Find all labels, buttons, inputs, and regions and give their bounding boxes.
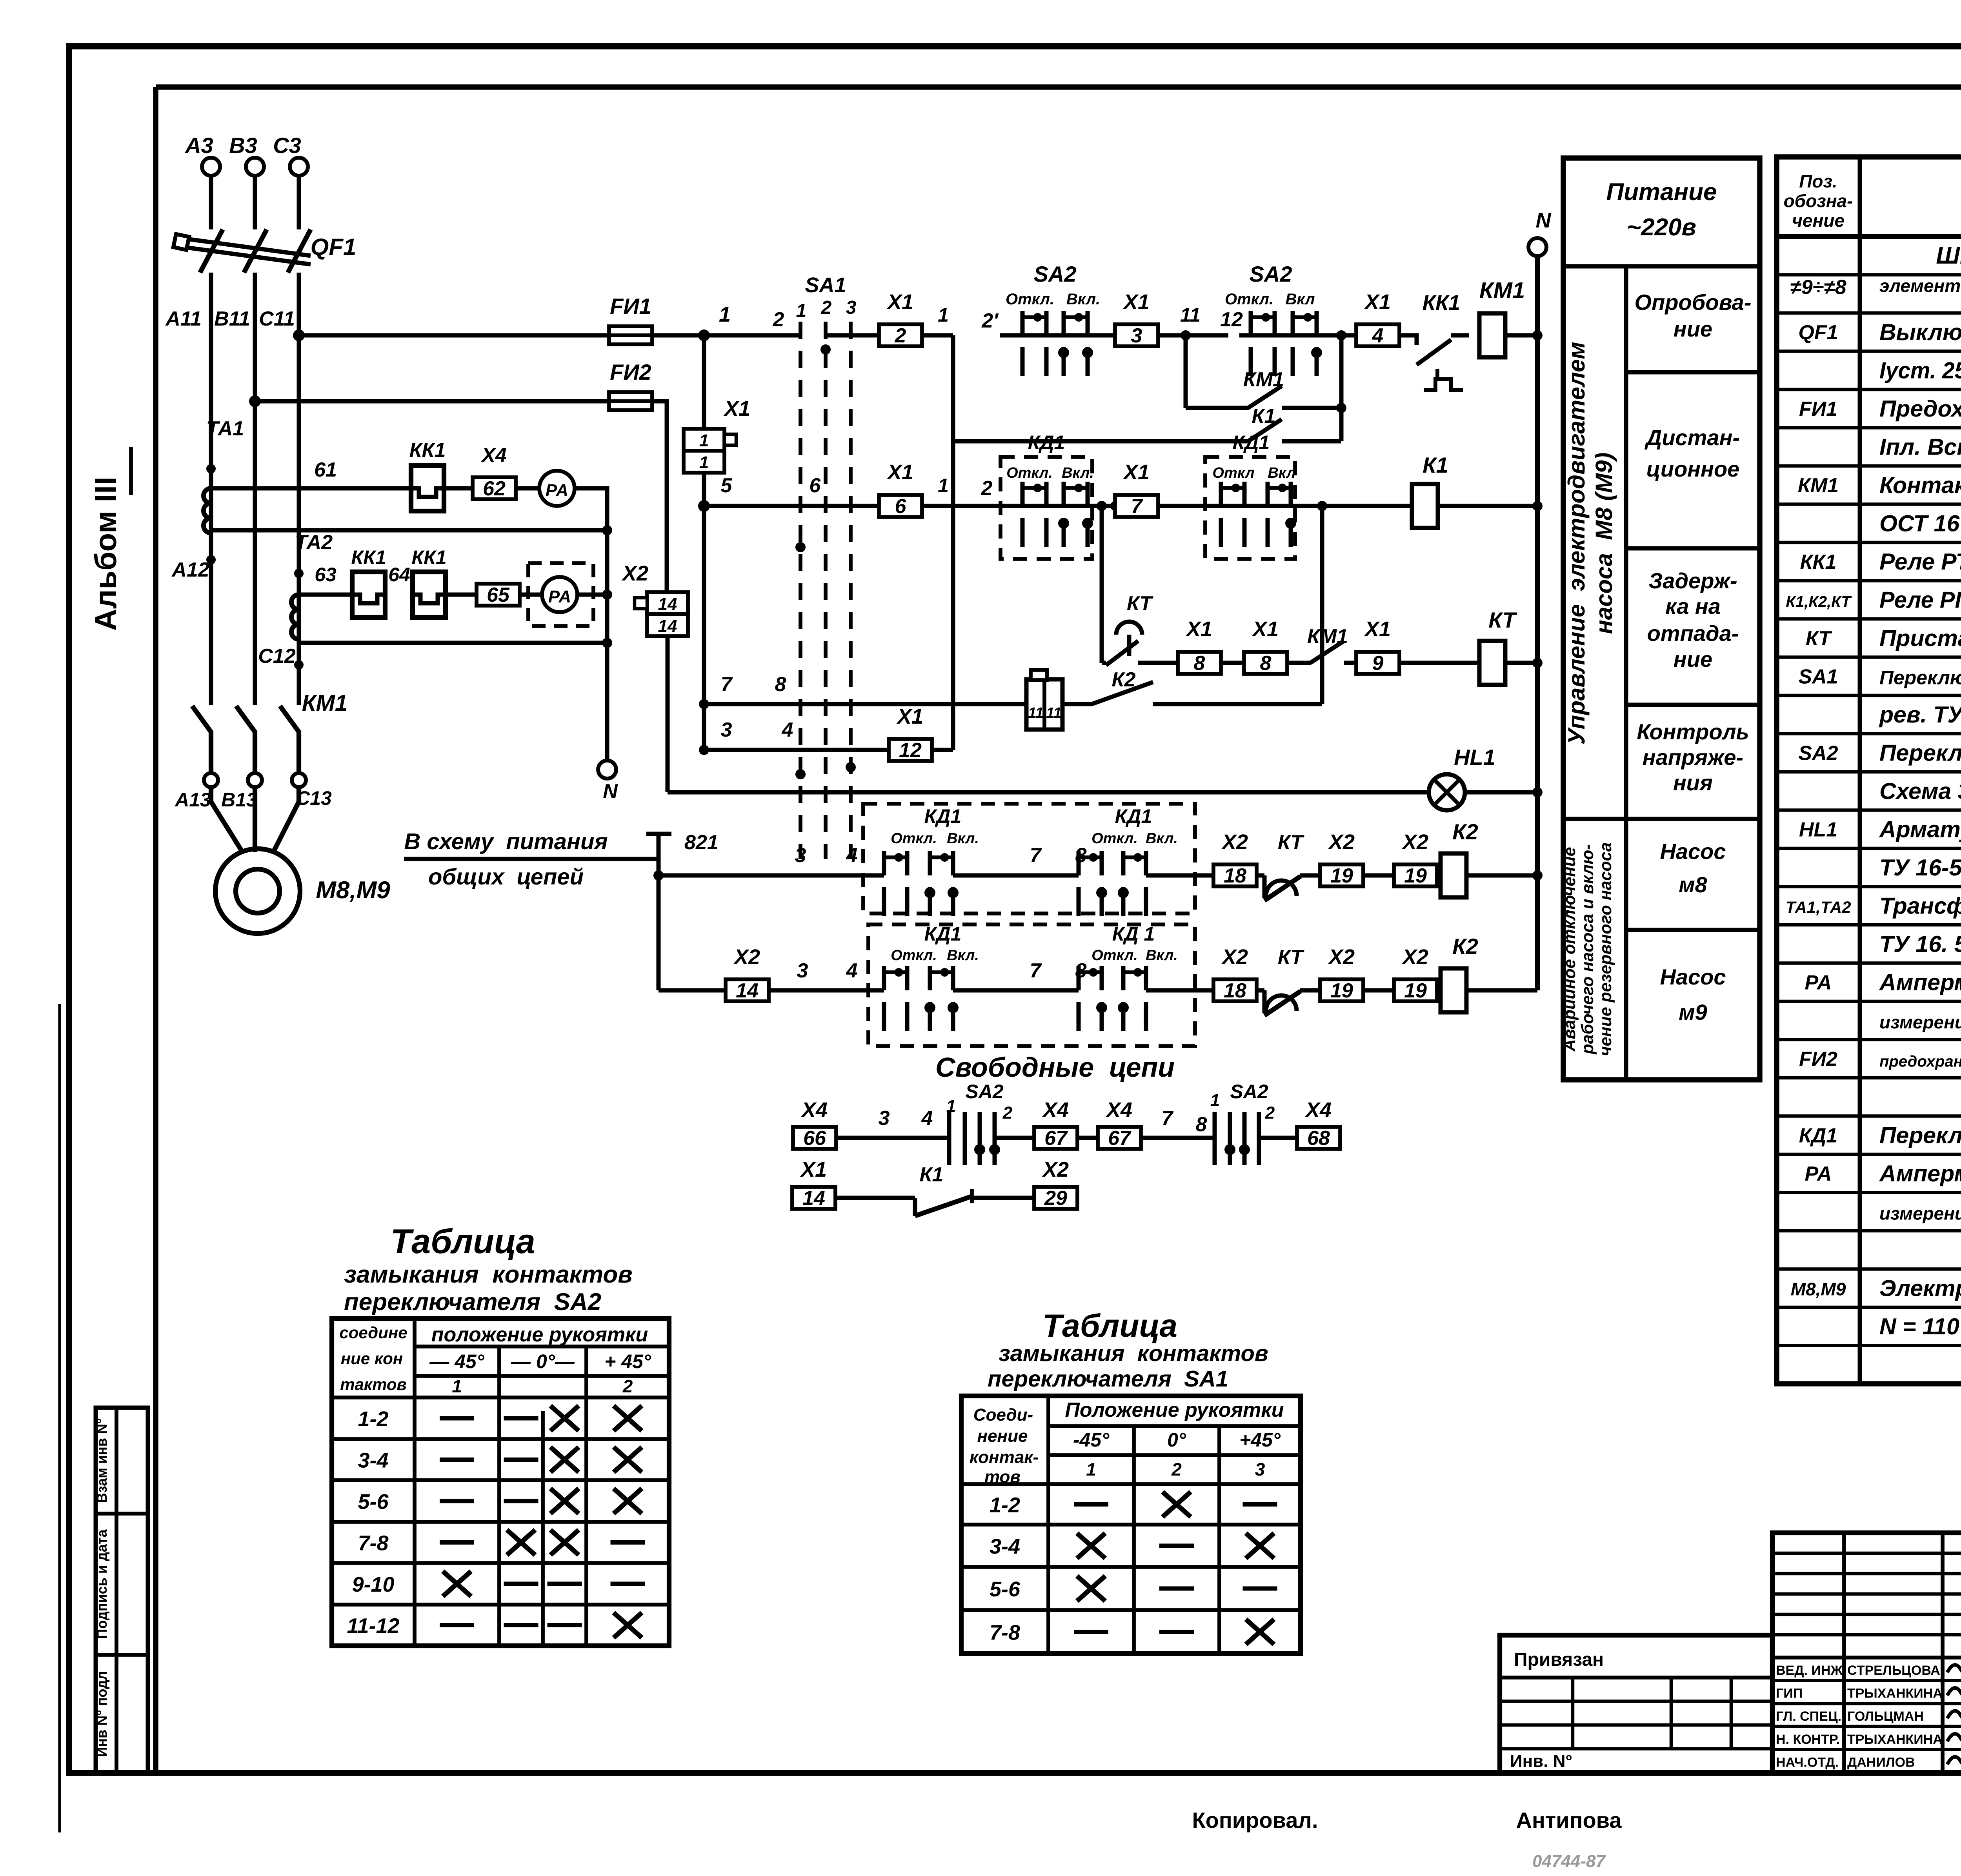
terminal N (meters) (598, 761, 616, 779)
parts row 5: Предохранитель ПРС-25У3-П (1799, 396, 1961, 422)
table SA1 row 3-4 (990, 1533, 1274, 1558)
terminal X4 67b (1098, 1127, 1141, 1149)
parts row 21: измерений 0-300А ТТ300/5А ТУ25.04-1308-76 (1879, 1008, 1961, 1033)
svg-text:18: 18 (1224, 864, 1246, 887)
wire K2 to N (M8) (1466, 873, 1537, 878)
wire KM1 to N (1505, 333, 1537, 338)
parts row 20: Амперметр Э377 кл. 1.0 предел (1805, 969, 1961, 995)
parts row 19: ТУ 16. 517. 442-80 (1879, 931, 1961, 957)
wire C phase down (297, 273, 301, 705)
wire row2 d (1322, 504, 1412, 508)
wire riser to row1 (1339, 335, 1344, 441)
svg-text:68: 68 (1307, 1127, 1330, 1150)
thermal contact KK1 (1399, 291, 1469, 390)
svg-text:4: 4 (846, 844, 858, 867)
table SA1 grid (961, 1396, 1301, 1654)
table SA2 row 11-12 (347, 1613, 642, 1638)
svg-text:-45°: -45° (1073, 1429, 1110, 1451)
lamp HL1 (1429, 745, 1495, 810)
parts row 13: рев. ТУ16-526.047-74. (1879, 702, 1961, 728)
svg-text:Х1: Х1 (1122, 460, 1150, 484)
wire node7 row8 (704, 702, 1028, 706)
svg-text:14: 14 (658, 617, 677, 636)
svg-text:напряже-: напряже- (1643, 745, 1743, 770)
parts row 15: Схема 3016 рук. рев.ТУ16-526.047-74 (1879, 778, 1961, 804)
terminal X1 2 (879, 324, 922, 346)
wire row2 a (800, 504, 880, 508)
wire meter bus down to N (605, 488, 609, 761)
svg-text:Инв. N°: Инв. N° (1510, 1752, 1572, 1771)
wire fuse to node 1 (651, 333, 704, 338)
svg-text:Х1: Х1 (886, 290, 913, 314)
neutral bus N (1528, 209, 1552, 990)
svg-text:62: 62 (483, 477, 506, 500)
parts row 14: Переключатель ПКУ3-12АУ3 (1798, 740, 1961, 766)
svg-text:обозна-: обозна- (1784, 191, 1853, 211)
relay coil K2 (M9) (1441, 968, 1466, 1012)
svg-text:Х1: Х1 (886, 460, 913, 484)
relay coil K1 (1412, 484, 1438, 528)
terminal B3 (246, 158, 264, 176)
svg-text:5-6: 5-6 (990, 1578, 1021, 1601)
relay coil K2 (M8) (1441, 853, 1466, 897)
fuse FИ2 (609, 392, 652, 410)
svg-text:29: 29 (1044, 1187, 1067, 1210)
svg-text:1: 1 (452, 1376, 462, 1396)
svg-text:Поз.: Поз. (1799, 171, 1837, 191)
wire node3 row4 (704, 748, 890, 752)
svg-text:К1: К1 (1423, 453, 1448, 477)
svg-text:В11: В11 (214, 308, 250, 330)
svg-text:Вкл.: Вкл. (1146, 830, 1178, 847)
aux contact KM1 (KT row) (1287, 661, 1310, 665)
svg-text:QF1: QF1 (1798, 321, 1838, 344)
svg-text:Х1: Х1 (1252, 617, 1279, 641)
terminal X2 18 (M9) (1213, 979, 1257, 1001)
motor leads (211, 787, 242, 852)
wire free1 a (836, 1136, 949, 1140)
wire B3 down (253, 176, 257, 229)
svg-text:КК1: КК1 (351, 546, 386, 568)
parts row 29: N = 110 кВт (1879, 1314, 1961, 1339)
table SA2 row 9-10 (352, 1571, 645, 1596)
junction PA2 out (602, 590, 612, 600)
terminal X4 68 (1297, 1127, 1340, 1149)
svg-text:ТА1: ТА1 (206, 417, 244, 440)
wire free1 d (1140, 1136, 1215, 1140)
svg-text:67: 67 (1108, 1127, 1131, 1150)
svg-text:8: 8 (1196, 1113, 1207, 1136)
svg-text:2: 2 (773, 308, 784, 331)
time contact KT (M9) (1256, 988, 1264, 993)
svg-text:Управление электродвигателем: Управление электродвигателем (1563, 342, 1590, 744)
svg-text:Альбом III: Альбом III (88, 477, 123, 631)
terminal B13 (248, 773, 262, 787)
svg-text:1: 1 (938, 475, 949, 497)
parts row 25: Амперметр Э377 кл 1.0 предел (1805, 1161, 1961, 1186)
svg-text:67: 67 (1044, 1127, 1068, 1150)
wire node11 down (1184, 335, 1188, 408)
svg-text:измерений 0-300А ТТ300/5А ТУ25: измерений 0-300А ТТ300/5А ТУ25.04-1308-7… (1879, 1012, 1961, 1032)
table SA1 row 5-6 (990, 1576, 1277, 1601)
svg-text:Iуст. 2500А. Зажимы N2 ТУ16-52: Iуст. 2500А. Зажимы N2 ТУ16-522.028-77 (1879, 357, 1961, 383)
table SA2 row 7-8 (358, 1530, 645, 1555)
parts row 18: Трансформатор Тк-40-1.У3 I 300/5А (1785, 893, 1961, 919)
svg-text:6: 6 (810, 474, 821, 497)
svg-text:4: 4 (921, 1107, 933, 1130)
svg-text:Шкаф управления Ш8(Ш9): Шкаф управления Ш8(Ш9) (1936, 242, 1961, 269)
terminal X2 19b (M9) (1394, 979, 1437, 1001)
wire M9 f (1436, 988, 1441, 993)
svg-text:SА2: SА2 (1230, 1081, 1268, 1103)
wire B to FИ2 (255, 399, 610, 404)
wire row2 b (921, 504, 1001, 508)
svg-text:N: N (603, 780, 618, 803)
svg-text:Х1: Х1 (1122, 290, 1150, 314)
wire M9 d (1300, 988, 1321, 993)
terminal X4 67a (1034, 1127, 1077, 1149)
svg-text:Х4: Х4 (480, 444, 507, 467)
terminal C3 (290, 158, 308, 176)
wire TA2 secondary top (299, 593, 352, 597)
parts row 24: Переключатель ПКУ3-12А-3016 (1799, 1122, 1961, 1148)
svg-text:КД1: КД1 (1115, 805, 1152, 827)
svg-text:КМ1: КМ1 (1479, 278, 1525, 303)
svg-text:SА2: SА2 (1034, 262, 1077, 286)
terminal X1 9 (1356, 652, 1399, 674)
table SA2 row 1-2 (358, 1406, 642, 1431)
svg-text:Вкл.: Вкл. (1062, 465, 1094, 481)
svg-text:FИ2: FИ2 (610, 360, 651, 384)
svg-text:Вкл.: Вкл. (947, 947, 979, 964)
svg-text:КМ1: КМ1 (1307, 625, 1348, 648)
parts row 28: Электродвигатель 4А315S6 У3 (1791, 1275, 1961, 1301)
switch SA2 group2 (row1) (1220, 262, 1341, 376)
svg-text:SА2: SА2 (965, 1081, 1003, 1103)
svg-text:КТ: КТ (1127, 592, 1154, 615)
wire to X1 4 (1341, 333, 1357, 338)
svg-text:0°: 0° (1167, 1429, 1186, 1451)
feeder riser 821 (657, 834, 661, 990)
svg-text:А3: А3 (184, 133, 213, 158)
svg-text:соедине: соедине (339, 1323, 407, 1342)
junction node 1 (698, 329, 710, 341)
fuse FИ1 (609, 326, 652, 344)
svg-text:3-4: 3-4 (990, 1535, 1020, 1558)
terminal A13 (204, 773, 218, 787)
wire PA2 out (577, 593, 607, 597)
svg-text:Задерж-: Задерж- (1648, 568, 1737, 593)
terminal X1 6 (879, 495, 922, 517)
time contact KT (M8) (1256, 873, 1264, 878)
svg-text:2: 2 (895, 324, 906, 347)
wire X1-12 riser (951, 335, 955, 750)
parts row 22: предохранительПРС 6У3-ПIпл.Вст=1А ТУ16.522.112-74 (1799, 1046, 1961, 1071)
wire node1 down (702, 335, 706, 750)
svg-text:РА: РА (1805, 1163, 1832, 1185)
wire X4-62 to PA1 (516, 486, 540, 491)
dashed box PA2 (528, 563, 593, 626)
title block left attach table (1500, 1635, 1772, 1772)
wire A phase down (209, 273, 213, 705)
svg-text:В13: В13 (221, 789, 257, 811)
junction K2riser row2 (1317, 501, 1327, 511)
svg-text:Подпись и дата: Подпись и дата (94, 1529, 110, 1639)
svg-text:Х4: Х4 (1105, 1098, 1132, 1122)
svg-text:65: 65 (487, 584, 510, 606)
parts row 12: ПереключательПКУ3-12СУ3.Схема2024 рук. (1798, 665, 1961, 688)
svg-text:ка на: ка на (1665, 594, 1721, 619)
svg-text:положение рукоятки: положение рукоятки (431, 1323, 648, 1346)
svg-text:предохранительПРС 6У3-ПIпл.Вст: предохранительПРС 6У3-ПIпл.Вст=1А ТУ16.5… (1879, 1053, 1961, 1070)
svg-text:8: 8 (1075, 959, 1087, 982)
parts row 10: Реле РПЛ 1220• 4 ~220В ТУ16-523.554-78 (1786, 587, 1961, 613)
table SA2 row 5-6 (358, 1488, 642, 1514)
table SA1 header (970, 1399, 1284, 1487)
svg-text:+ 45°: + 45° (604, 1350, 651, 1372)
svg-text:ТРЫХАНКИНА: ТРЫХАНКИНА (1847, 1686, 1943, 1701)
svg-text:Свободные цепи: Свободные цепи (935, 1052, 1175, 1083)
svg-text:К1: К1 (1252, 405, 1276, 428)
svg-text:КД 1: КД 1 (1112, 923, 1155, 945)
svg-text:Х1: Х1 (896, 705, 923, 728)
svg-text:SА2: SА2 (1250, 262, 1292, 286)
terminal X1 4 (1356, 324, 1399, 346)
svg-text:Выключатель А3722ФУ3‚ ~380В I: Выключатель А3722ФУ3‚ ~380В I 25А (1879, 319, 1961, 345)
junction B-FИ2 (249, 395, 261, 407)
junction N row2 (1532, 501, 1543, 511)
svg-text:1-2: 1-2 (990, 1494, 1020, 1517)
terminal X1 8b (1244, 652, 1287, 674)
wire K1 to N (1438, 504, 1537, 508)
svg-text:Вкл: Вкл (1268, 465, 1295, 481)
svg-text:РА: РА (548, 587, 571, 606)
parts row 11: Приставка ПВЛ 2204 ТУ16-523.554-78 (1806, 625, 1961, 651)
junction KM1aux (1336, 403, 1346, 413)
thermal element KK1b (TA2) (413, 572, 446, 617)
svg-text:+45°: +45° (1239, 1429, 1281, 1451)
svg-text:12: 12 (1220, 308, 1243, 331)
title block signature table (1772, 1533, 1961, 1772)
svg-text:3-4: 3-4 (358, 1449, 388, 1472)
wire free2 a (836, 1196, 915, 1200)
svg-text:N: N (1536, 209, 1552, 232)
wire KT to X1-8 (1138, 661, 1178, 665)
svg-text:КД1: КД1 (1028, 431, 1065, 453)
ammeter PA2 (542, 577, 577, 612)
svg-text:1: 1 (699, 431, 709, 450)
svg-text:Х2: Х2 (1221, 830, 1248, 854)
svg-text:Предохранитель ПРС-25У3-П: Предохранитель ПРС-25У3-П (1879, 396, 1961, 422)
svg-text:Вкл: Вкл (1285, 291, 1315, 308)
svg-text:Откл: Откл (1212, 465, 1254, 481)
wire lamp to N (1465, 790, 1537, 795)
motor M8 M9 (215, 849, 300, 933)
SA1 dots row4 (795, 769, 806, 779)
wire row1 to fuse (299, 333, 610, 338)
terminal X2 14/14 (621, 562, 688, 636)
svg-text:7: 7 (1131, 495, 1143, 518)
wire row2 branch down (1100, 506, 1104, 663)
svg-text:КТ: КТ (1278, 831, 1305, 854)
svg-text:1: 1 (796, 300, 807, 321)
wire node5 row (704, 504, 800, 508)
svg-text:1: 1 (1086, 1459, 1096, 1479)
junction N row1 (1532, 330, 1543, 340)
svg-text:Инв N° подл: Инв N° подл (94, 1671, 110, 1757)
junction row2 mid (1110, 501, 1121, 511)
relay coil KT (1479, 641, 1505, 685)
terminal X1 8a (1178, 652, 1221, 674)
svg-text:SА1: SА1 (805, 273, 846, 297)
wire feeder underline (404, 857, 659, 861)
svg-text:КТ: КТ (1806, 627, 1833, 650)
svg-text:А13: А13 (174, 789, 211, 811)
svg-text:3: 3 (721, 719, 732, 741)
wire B phase down (253, 273, 257, 705)
svg-text:Х1: Х1 (1185, 617, 1212, 641)
svg-text:3: 3 (1255, 1459, 1265, 1479)
svg-text:Откл.: Откл. (1225, 291, 1273, 308)
svg-text:11: 11 (1046, 705, 1061, 721)
svg-text:Х2: Х2 (733, 945, 760, 969)
terminal block 11|11 (1026, 670, 1062, 730)
table SA1 row 7-8 (990, 1619, 1274, 1645)
svg-text:Вкл.: Вкл. (1146, 947, 1178, 964)
svg-text:ГЛ. СПЕЦ.: ГЛ. СПЕЦ. (1776, 1709, 1841, 1724)
parts table header (1784, 171, 1961, 231)
svg-text:18: 18 (1224, 979, 1246, 1002)
svg-text:элементы управления электродви: элементы управления электродвигателя- (1879, 276, 1961, 296)
svg-text:Контактор КТ6033У3 ~220В Б/к: Контактор КТ6033У3 ~220В Б/к 23‚2р (1879, 472, 1961, 498)
terminal X1 1/1 (684, 397, 750, 473)
svg-text:Х1: Х1 (800, 1158, 827, 1181)
svg-text:ТРЫХАНКИНА: ТРЫХАНКИНА (1847, 1732, 1943, 1747)
svg-text:Реле РПЛ 1220• 4 ~220В ТУ16-52: Реле РПЛ 1220• 4 ~220В ТУ16-523.554-78 (1879, 587, 1961, 613)
table SA2 header (339, 1323, 651, 1396)
wire row M9 b (953, 988, 1079, 993)
remote switch КД1 box1 (row2) (1001, 431, 1115, 559)
remote switch КД1 box (M9) (868, 923, 1195, 1046)
svg-text:Переключатель ПКУ3-12АУ3: Переключатель ПКУ3-12АУ3 (1879, 740, 1961, 766)
svg-text:3: 3 (1131, 324, 1142, 347)
wire 8a-8b (1221, 661, 1244, 665)
table SA2 grid (332, 1319, 669, 1646)
svg-text:Вкл.: Вкл. (947, 830, 979, 847)
svg-text:Откл.: Откл. (1006, 465, 1053, 481)
svg-text:замыкания контактов: замыкания контактов (999, 1341, 1268, 1366)
svg-text:3: 3 (795, 844, 806, 867)
wire A3 down (209, 176, 213, 229)
wire TA2 return (299, 641, 607, 645)
svg-text:7: 7 (721, 673, 733, 696)
svg-text:К2: К2 (1452, 934, 1478, 959)
svg-text:63: 63 (315, 564, 337, 586)
aux contact K1 (953, 439, 1248, 444)
svg-text:ционное: ционное (1646, 457, 1740, 481)
svg-text:НАЧ.ОТД.: НАЧ.ОТД. (1776, 1755, 1839, 1770)
switch SA2 (free1 right) (1210, 1081, 1275, 1165)
wire feeder M9 (659, 988, 726, 993)
svg-text:2′: 2′ (981, 309, 999, 332)
wire M8 e (1363, 873, 1395, 878)
parts row 7: Контактор КТ6033У3 ~220В Б/к 23‚2р (1798, 472, 1961, 498)
switch SA2 (free1 left) (946, 1081, 1013, 1165)
wire free1 b (995, 1136, 1035, 1140)
svg-text:8: 8 (775, 673, 786, 696)
svg-text:4: 4 (782, 719, 793, 741)
terminal X2 29 (1034, 1187, 1077, 1209)
svg-text:Аварийное отключение: Аварийное отключение (1560, 847, 1579, 1052)
svg-text:Вкл.: Вкл. (1066, 291, 1100, 308)
svg-text:КК1: КК1 (1423, 291, 1460, 315)
svg-text:FИ1: FИ1 (610, 294, 651, 318)
svg-text:КМ1: КМ1 (302, 690, 347, 716)
aux contact K2 (row8) (1062, 702, 1092, 706)
svg-text:М8,М9: М8,М9 (1791, 1279, 1846, 1299)
svg-text:19: 19 (1404, 979, 1427, 1002)
svg-text:Привязан: Привязан (1514, 1649, 1604, 1670)
svg-text:Откл.: Откл. (891, 947, 937, 964)
svg-text:Х2: Х2 (1328, 830, 1355, 854)
remote switch КД1 box (M8) (863, 804, 1195, 916)
table SA1 row 1-2 (990, 1492, 1277, 1517)
svg-text:3: 3 (879, 1107, 890, 1130)
svg-text:~220в: ~220в (1627, 214, 1696, 241)
svg-text:14: 14 (802, 1187, 825, 1210)
svg-text:ТА2: ТА2 (295, 531, 333, 554)
svg-text:С3: С3 (273, 133, 301, 158)
junction feeder M8 (653, 870, 664, 881)
svg-text:4: 4 (846, 959, 858, 982)
thermal element KK1 (TA1) (411, 466, 444, 511)
junction return (602, 525, 612, 535)
function table frame (1563, 158, 1760, 1080)
svg-text:Х1: Х1 (1364, 290, 1391, 314)
svg-text:8: 8 (1260, 652, 1272, 675)
svg-text:Переключатель ПКУ3-12А-3016: Переключатель ПКУ3-12А-3016 (1879, 1122, 1961, 1148)
svg-text:КК1: КК1 (409, 439, 446, 462)
parts row 8: ОСТ 16 0.52 4.001-72 (1879, 510, 1961, 536)
svg-text:8: 8 (1075, 844, 1087, 867)
svg-text:КМ1: КМ1 (1243, 368, 1284, 391)
svg-text:QF1: QF1 (311, 234, 357, 260)
svg-text:КД1: КД1 (1799, 1124, 1837, 1147)
wire X1-2 stub (826, 333, 880, 338)
svg-text:SА1: SА1 (1798, 665, 1838, 688)
parts row 4: Iуст. 2500А. Зажимы N2 ТУ16-522.028-77 (1879, 357, 1961, 383)
terminal X2 19b (M8) (1394, 864, 1437, 886)
svg-text:4: 4 (1372, 324, 1384, 347)
svg-text:HL1: HL1 (1799, 818, 1837, 841)
wire free1 e (1259, 1136, 1297, 1140)
junction node7 (699, 699, 709, 709)
svg-text:1: 1 (719, 303, 731, 326)
svg-text:КМ1: КМ1 (1798, 474, 1839, 497)
svg-text:КК1: КК1 (1800, 551, 1837, 573)
parts row 1: Шкаф управления Ш8(Ш9) (1936, 239, 1961, 277)
junction row1-K1 (1336, 330, 1346, 340)
svg-text:К1: К1 (920, 1163, 944, 1186)
svg-text:12: 12 (899, 739, 922, 762)
svg-text:19: 19 (1404, 864, 1427, 887)
svg-text:контак-: контак- (970, 1448, 1039, 1467)
svg-text:ТУ 16. 517. 442-80: ТУ 16. 517. 442-80 (1879, 931, 1961, 957)
svg-text:Насос: Насос (1660, 964, 1726, 989)
svg-text:Дистан-: Дистан- (1644, 425, 1740, 450)
switch SA1 dashed contacts (796, 273, 857, 859)
svg-text:переключателя SА2: переключателя SА2 (344, 1288, 601, 1316)
